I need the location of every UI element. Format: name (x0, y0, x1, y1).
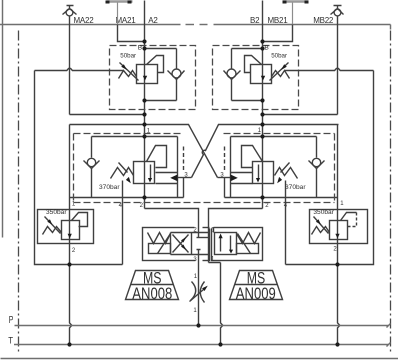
svg-text:A2: A2 (148, 16, 158, 25)
svg-text:350bar: 350bar (46, 209, 67, 216)
svg-text:AN009: AN009 (236, 285, 276, 303)
svg-text:50bar: 50bar (120, 53, 136, 60)
svg-text:B2: B2 (250, 16, 260, 25)
svg-text:P: P (9, 315, 14, 326)
svg-text:B: B (138, 44, 143, 51)
svg-text:MB22: MB22 (313, 16, 334, 25)
svg-text:MA21: MA21 (116, 16, 137, 25)
svg-text:AN008: AN008 (132, 285, 172, 303)
svg-text:350bar: 350bar (313, 209, 334, 216)
svg-text:370bar: 370bar (285, 184, 306, 191)
svg-text:T: T (8, 336, 13, 346)
svg-text:B: B (264, 44, 269, 51)
svg-text:MA22: MA22 (74, 16, 95, 25)
svg-text:50bar: 50bar (271, 53, 287, 60)
svg-text:370bar: 370bar (99, 184, 120, 191)
svg-text:MB21: MB21 (268, 16, 289, 25)
